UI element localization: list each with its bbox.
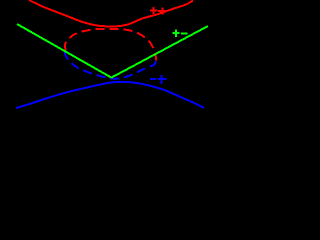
green V right arm — [111, 26, 208, 78]
lower curve (blue solid, -+ state) — [16, 82, 204, 108]
label +- (green) plus — [173, 30, 180, 37]
green V left arm (+- state line) — [17, 24, 111, 78]
upper hyperbola branch (red solid, ++ state) — [29, 0, 193, 27]
label -+ (blue) minus — [150, 78, 157, 80]
dashed loop lower arc (blue) — [64, 51, 156, 79]
label +- (green) minus — [181, 32, 187, 34]
label -+ (blue) plus — [158, 75, 167, 84]
label ++ (red) first plus — [150, 7, 158, 14]
dashed loop upper arc (red) — [65, 29, 156, 61]
label ++ (red) second plus — [158, 7, 166, 14]
